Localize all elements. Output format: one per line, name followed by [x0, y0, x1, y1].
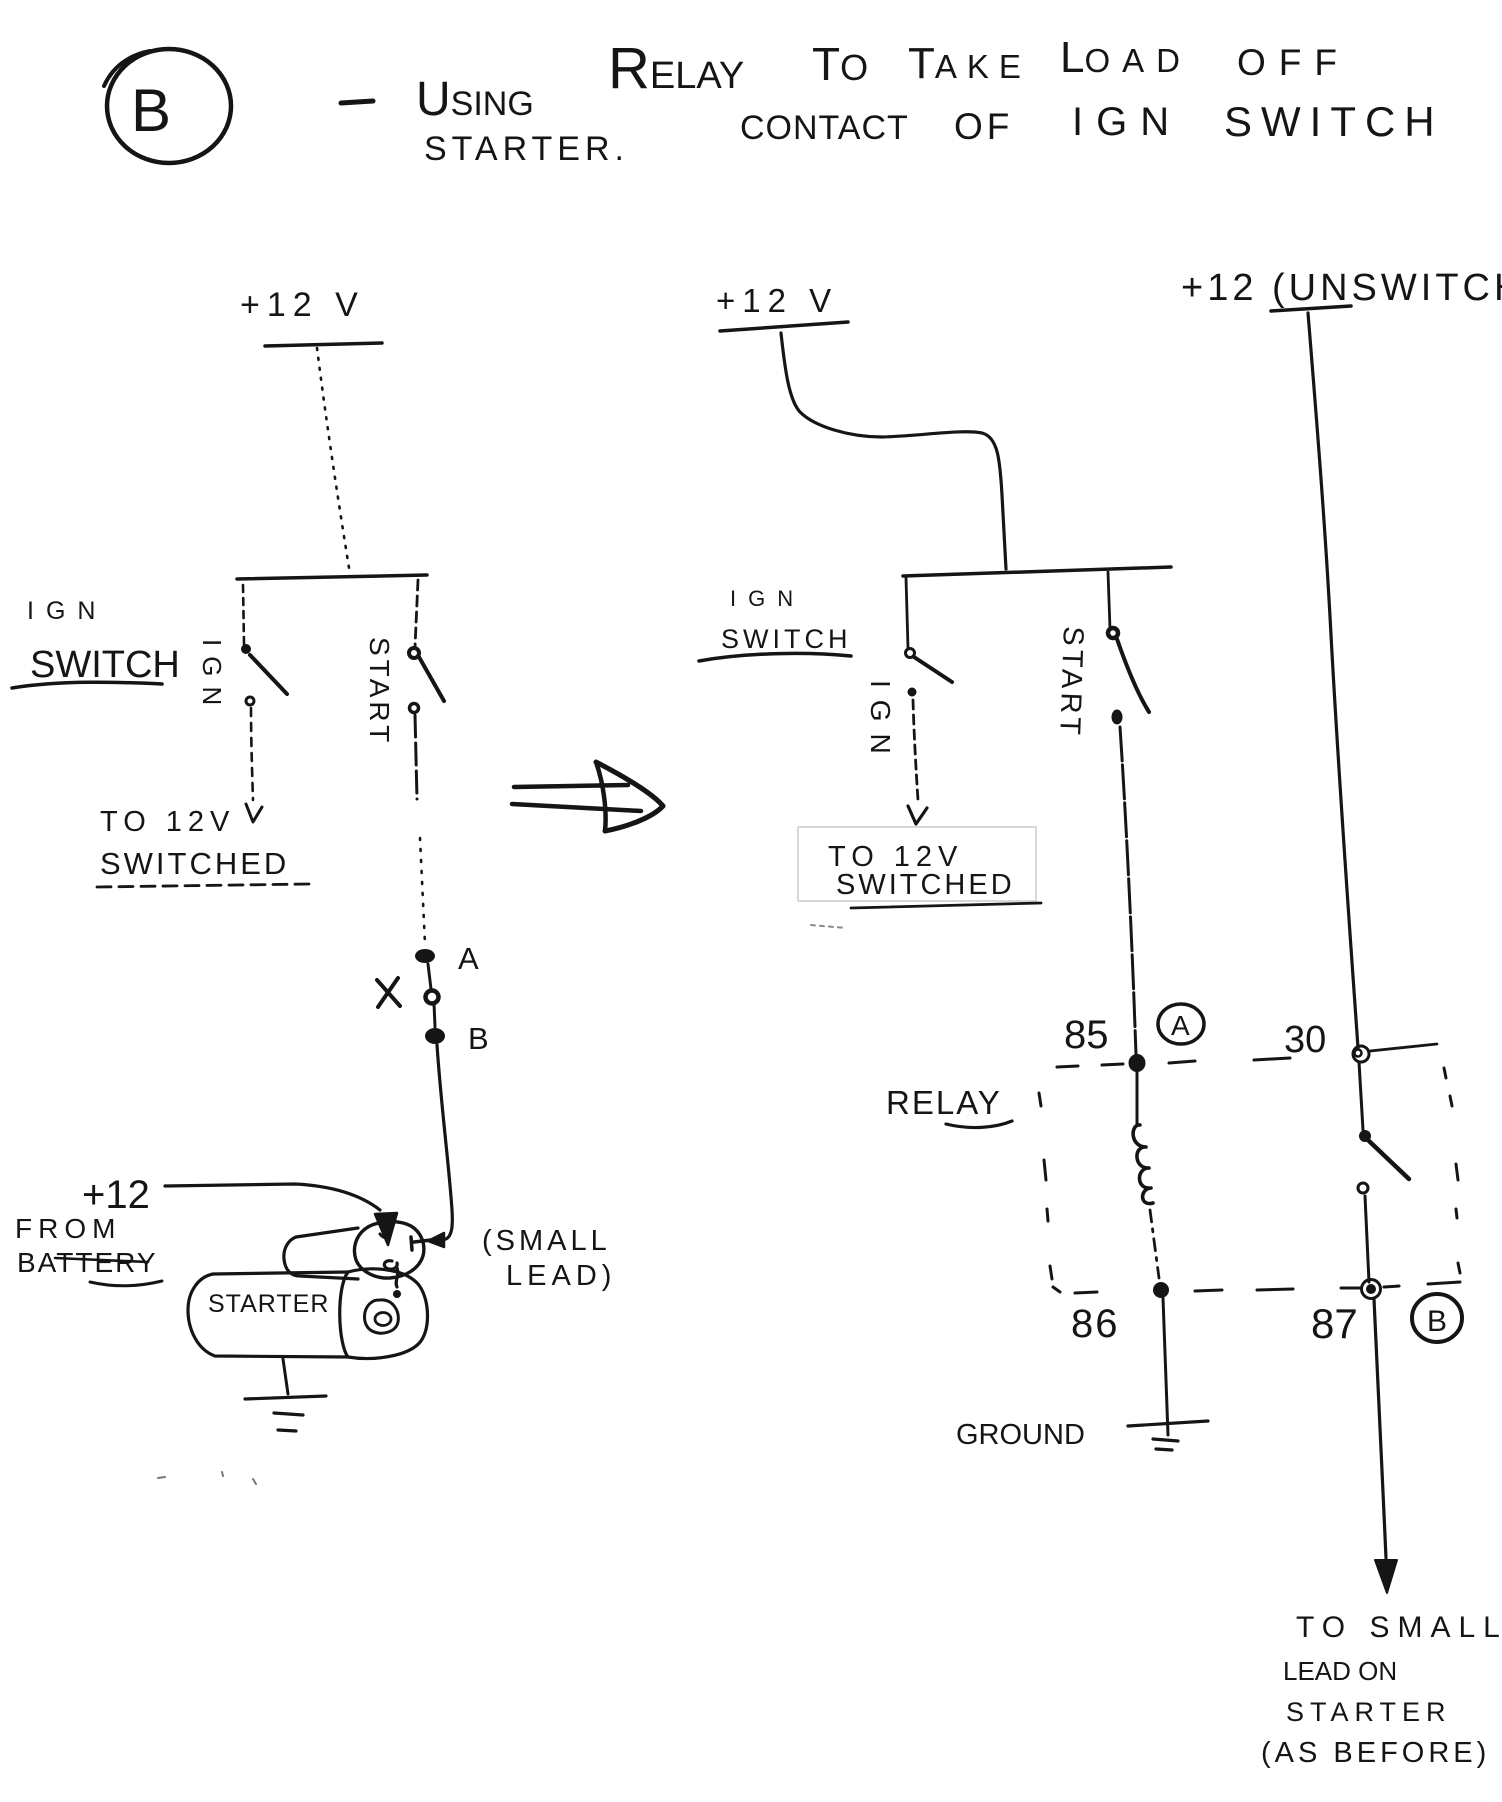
relay dashed box right: [1444, 1068, 1460, 1273]
right START contact pivot: [1108, 628, 1118, 638]
svg-text:86: 86: [1071, 1302, 1120, 1346]
svg-text:TO 12V: TO 12V: [100, 806, 235, 838]
middle +12V supply bar: [720, 322, 848, 331]
wire: bus to START contact: [415, 580, 418, 647]
solenoid lead squiggle to starter: [384, 1261, 398, 1287]
left START contact pivot: [409, 648, 419, 658]
svg-text:STARTER: STARTER: [208, 1290, 329, 1318]
wire: coil to pin 86 (dash-dot): [1150, 1210, 1159, 1278]
left TO 12V SWITCHED label: [100, 806, 289, 881]
starter motor body: [188, 1272, 348, 1357]
svg-text:+12: +12: [82, 1173, 150, 1217]
svg-text:(SMALL: (SMALL: [482, 1225, 611, 1257]
node pin 30 ring: [1353, 1046, 1369, 1062]
starter end bell circle: [340, 1269, 428, 1359]
svg-text:LEAD ON: LEAD ON: [1283, 1656, 1397, 1686]
node pin 85: [1129, 1054, 1146, 1072]
left ign switch top bus wire: [237, 575, 427, 579]
svg-text:B: B: [131, 77, 171, 144]
left +12V supply bar: [265, 343, 382, 346]
right IGN contact pivot: [906, 649, 915, 658]
wire: bus to right IGN contact: [906, 578, 908, 648]
right ign switch top bus wire: [903, 567, 1171, 576]
right IGN lower contact: [908, 688, 917, 697]
title circled B: [104, 49, 231, 163]
solenoid body blob: [354, 1222, 423, 1278]
svg-text:SWITCHED: SWITCHED: [836, 869, 1015, 901]
svg-text:GROUND: GROUND: [956, 1419, 1085, 1451]
svg-text:STARTER: STARTER: [1286, 1697, 1452, 1727]
wire: left supply to switch (dotted): [317, 348, 350, 574]
relay switch pivot: [1359, 1130, 1371, 1142]
wire: START contact down: [415, 715, 417, 799]
wire: IGN contact down (dashed, arrow): [251, 708, 253, 800]
starter ground wire: [283, 1359, 288, 1394]
svg-text:+12 V: +12 V: [240, 286, 365, 324]
svg-text:OFF: OFF: [1237, 42, 1350, 83]
wire: middle supply S-curve to right bus: [781, 333, 1006, 569]
svg-text:LEAD): LEAD): [506, 1260, 616, 1292]
svg-text:START: START: [1053, 626, 1089, 739]
left START switch blade: [419, 657, 444, 701]
wire: START contact down to relay pin 85: [1120, 727, 1136, 1054]
title line 1: USING RELAY TO TAKE LOAD OFF: [416, 33, 1350, 126]
relay switch blade: [1369, 1141, 1409, 1179]
left IGN SWITCH label: [27, 597, 180, 686]
wire: contact to pin 87: [1365, 1196, 1369, 1282]
node B: [425, 1028, 445, 1044]
circled B: [1412, 1294, 1462, 1342]
svg-text:IGN: IGN: [865, 680, 896, 766]
svg-text:85: 85: [1064, 1013, 1109, 1057]
svg-text:+12 V: +12 V: [716, 282, 838, 319]
svg-text:IGN: IGN: [27, 597, 107, 625]
wire: dotted continuation to node A: [420, 838, 425, 944]
mid junction ring: [426, 991, 439, 1004]
node A: [415, 949, 435, 963]
svg-text:RELAY: RELAY: [886, 1084, 1002, 1121]
svg-text:B: B: [468, 1021, 489, 1056]
left START lower contact: [410, 704, 419, 713]
svg-text:A: A: [1171, 1010, 1190, 1041]
svg-text:SWITCH: SWITCH: [30, 644, 180, 686]
wire: B down to solenoid small lead (arrow left): [437, 1045, 452, 1240]
left IGN contact pivot: [241, 644, 251, 654]
svg-text:87: 87: [1311, 1300, 1358, 1347]
svg-text:IGN: IGN: [730, 586, 805, 611]
svg-text:IGN: IGN: [197, 639, 227, 715]
svg-text:OF: OF: [954, 106, 1013, 147]
wire: A to mid node: [428, 964, 431, 989]
svg-text:(AS BEFORE): (AS BEFORE): [1261, 1737, 1490, 1769]
relay coil wire from pin 85: [1136, 1072, 1139, 1124]
wire: pin30 stub to right: [1370, 1044, 1437, 1051]
svg-text:SWITCH: SWITCH: [1224, 98, 1444, 145]
big transform arrow shaft lines: [514, 785, 628, 787]
left IGN switch blade: [250, 655, 287, 694]
relay dashed box left: [1039, 1093, 1060, 1292]
ground symbol right: [1128, 1421, 1208, 1426]
stray marks: [158, 1472, 256, 1484]
svg-text:SWITCH: SWITCH: [721, 624, 851, 654]
node pin 86: [1153, 1282, 1169, 1298]
right IGN switch blade: [914, 657, 952, 682]
starter ground symbol: [245, 1396, 326, 1399]
right TO 12V SWITCHED faint box: [798, 827, 1036, 901]
node pin 87: [1366, 1284, 1376, 1294]
left IGN lower contact: [246, 697, 254, 705]
wire: pin 30 to relay switch pivot: [1359, 1062, 1363, 1130]
circled A: [1158, 1004, 1204, 1044]
title dash: [341, 101, 373, 103]
svg-text:STARTER.: STARTER.: [424, 130, 629, 168]
svg-text:TO SMALL: TO SMALL: [1296, 1611, 1502, 1644]
svg-text:CONTACT: CONTACT: [740, 109, 909, 147]
wire: bus to IGN contact (dashed): [243, 585, 244, 644]
starter inner circle: [365, 1300, 399, 1333]
starter solenoid small cylinder: [284, 1228, 358, 1279]
relay dashed box bottom: [1075, 1282, 1460, 1293]
right TO 12V SWITCHED label: [828, 841, 1015, 901]
relay switch lower contact ring: [1358, 1183, 1368, 1193]
wire: pin 87 down to starter lead (arrow): [1374, 1299, 1386, 1558]
right START switch blade: [1117, 639, 1149, 712]
TO SMALL LEAD ON STARTER (AS BEFORE) label: [1261, 1611, 1502, 1769]
wire: unswitched +12 down to pin 30: [1308, 313, 1358, 1048]
relay coil: [1133, 1125, 1153, 1204]
svg-text:A: A: [458, 941, 479, 976]
big transform arrow head: [596, 762, 663, 831]
svg-text:FROM: FROM: [15, 1213, 121, 1244]
right START lower contact: [1112, 710, 1123, 725]
svg-text:30: 30: [1284, 1019, 1326, 1061]
wire: +12 to solenoid top (arrow down): [165, 1184, 380, 1210]
wire: right IGN down (dashed, arrow): [913, 700, 918, 800]
wire: pin 86 to ground: [1163, 1298, 1168, 1435]
svg-text:B: B: [1427, 1305, 1447, 1338]
unswitched +12 bar: [1271, 306, 1351, 311]
svg-text:SWITCHED: SWITCHED: [100, 846, 289, 881]
title line 2: STARTER CONTACT OF IGN SWITCH: [424, 98, 1444, 168]
svg-text:START: START: [364, 637, 395, 746]
FROM BATTERY label: [15, 1213, 158, 1278]
relay dashed box top: [1057, 1058, 1290, 1067]
right IGN SWITCH label: [721, 586, 851, 654]
solenoid terminal marks: [380, 1234, 388, 1238]
(SMALL LEAD) label: [482, 1225, 616, 1292]
wire: mid node to B: [434, 1003, 435, 1027]
svg-text:+12 (UNSWITCHED: +12 (UNSWITCHED: [1181, 267, 1502, 309]
wire: bus to right START contact: [1108, 572, 1110, 629]
svg-text:IGN: IGN: [1072, 100, 1182, 144]
X mark: [377, 978, 400, 1007]
